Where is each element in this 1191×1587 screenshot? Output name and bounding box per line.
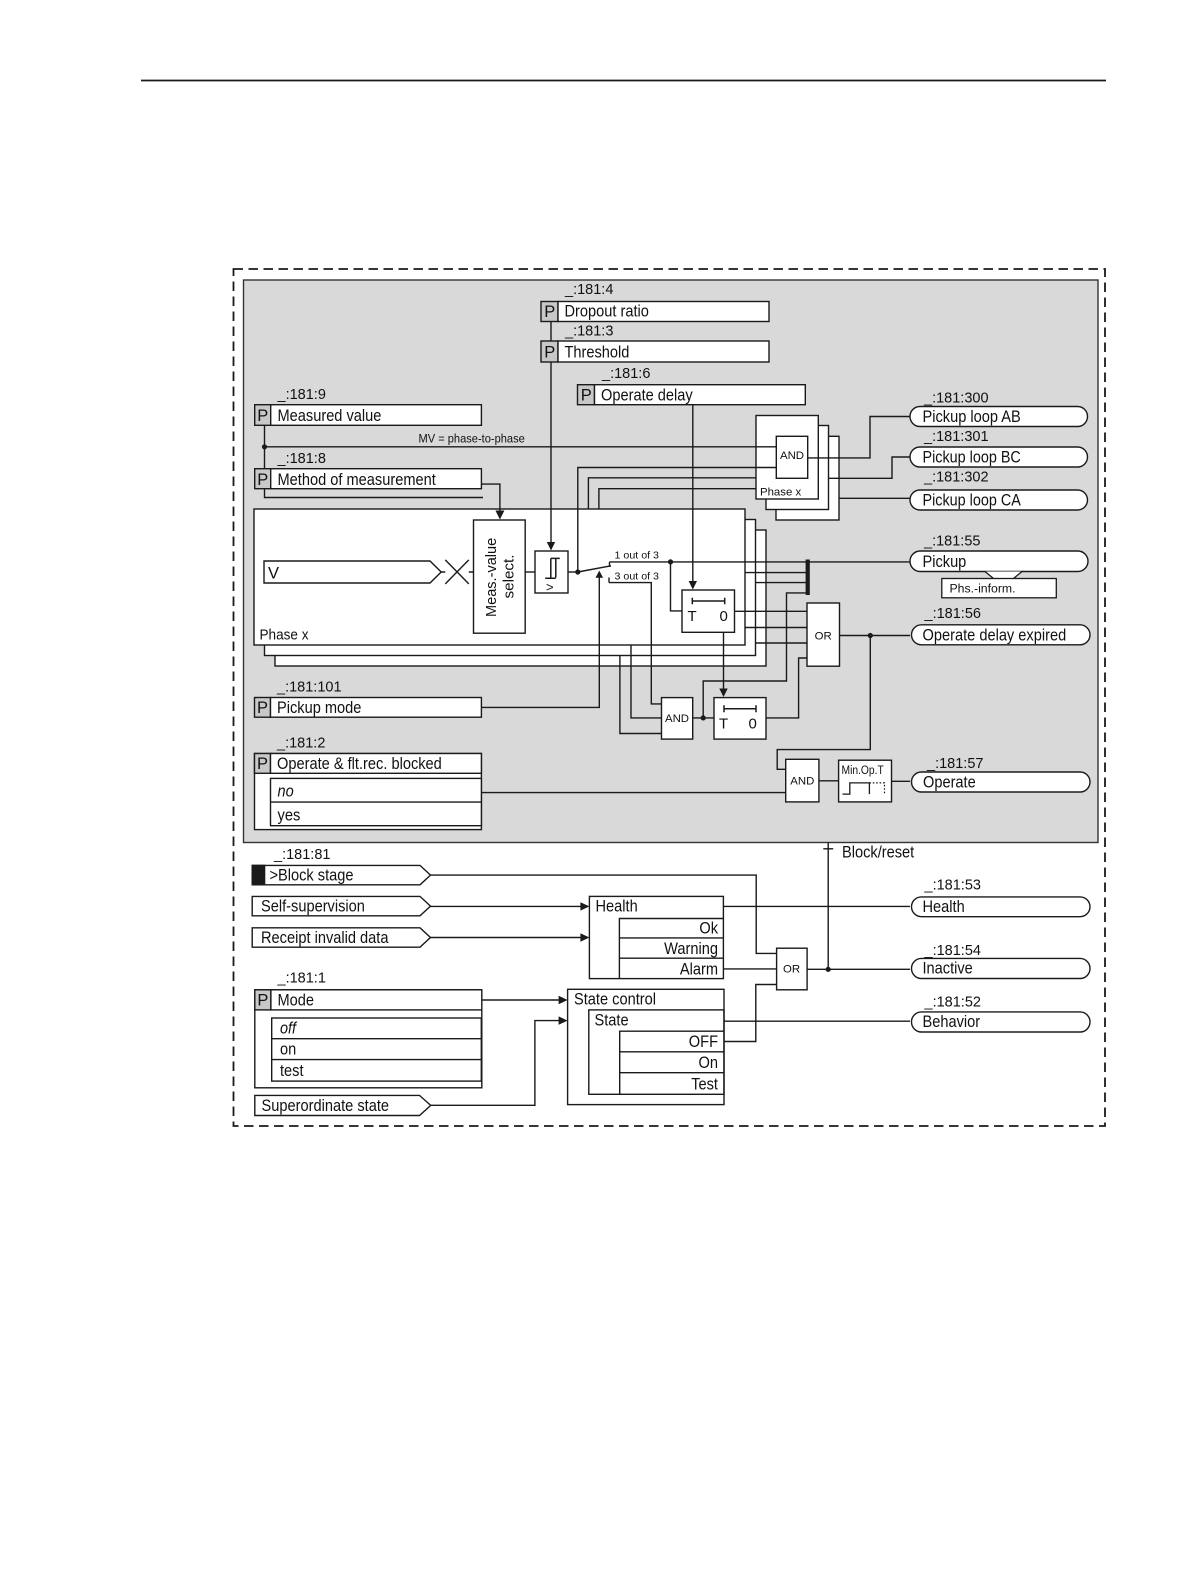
arrowhead: into meas.-value select top [495,511,504,520]
svg-text:yes: yes [278,807,301,825]
wire: AND A2 input 3 [620,656,662,734]
wire: no-option line to AND A3 [481,792,785,794]
AND gate A0 (phase AND) [776,436,807,478]
svg-text:Pickup loop CA: Pickup loop CA [923,492,1021,510]
gray function area [244,280,1099,843]
svg-text:_:181:4: _:181:4 [564,282,613,298]
wire: Block/reset tick [823,848,833,850]
svg-text:P: P [544,344,555,362]
arrowhead: into Health (self-supervision) [580,902,589,910]
svg-text:>Block stage: >Block stage [270,867,354,885]
Phs.-inform. trapezoid [985,572,1022,579]
wire: comparator to switch dot [568,571,578,573]
node: measured value junction dot [262,444,267,449]
svg-text:Superordinate state: Superordinate state [262,1097,390,1115]
wire: OR O1 output to Operate delay expired [840,635,911,637]
no/yes options box [271,778,482,825]
input V symbol [264,561,441,583]
wire: meas.-value select to comparator [525,571,535,573]
wire: Self-supervision to Health block [431,905,582,907]
AND container sheet 1 (front) [756,416,818,500]
output pill: Pickup loop AB [910,407,1088,427]
wire: Alarm output to OR gate O2 [723,968,776,970]
parameter P box: Operate delay [578,385,595,405]
comparator hysteresis symbol [545,558,560,578]
wire: OR O2 output to Inactive pill [807,968,910,970]
input banner: >Block stage [252,865,430,884]
node: O1 output junction dot [868,633,873,638]
output pill: Health [912,897,1091,917]
output pill: Pickup loop CA [910,490,1088,510]
svg-text:_:181:2: _:181:2 [276,736,325,752]
svg-text:Phase x: Phase x [260,627,309,644]
svg-text:Inactive: Inactive [923,960,973,978]
AND gate A3 [786,759,819,802]
svg-text:_:181:55: _:181:55 [923,534,980,550]
svg-text:0: 0 [749,715,757,732]
svg-text:Pickup loop BC: Pickup loop BC [923,449,1021,467]
svg-text:Alarm: Alarm [680,961,718,979]
svg-text:P: P [257,407,268,425]
wire: State row output to Behavior pill [724,1020,910,1022]
wire: 3 out of 3 line down to AND gate A2 [609,583,662,704]
wire: Min.Op.T output to Operate [892,780,911,782]
wire: AND A2 input 2 [631,645,662,718]
svg-text:_:181:8: _:181:8 [277,451,326,467]
svg-text:Receipt invalid data: Receipt invalid data [261,929,389,947]
Health Ok row [619,919,723,979]
svg-text:AND: AND [780,450,804,462]
input banner: Superordinate state [255,1095,431,1115]
svg-text:select.: select. [501,555,518,599]
arrowhead: into timer T2 top [719,689,727,698]
svg-text:State: State [595,1012,629,1030]
wire: Superordinate state to State control [431,1021,560,1106]
wire: 1 out of 3 contact tick [609,562,611,567]
svg-text:Phs.-inform.: Phs.-inform. [950,582,1016,596]
svg-text:Threshold: Threshold [565,344,630,362]
output pill: Pickup [910,551,1088,572]
svg-text:P: P [257,471,268,489]
svg-text:OR: OR [815,631,832,643]
svg-text:_:181:56: _:181:56 [924,606,981,622]
svg-text:Test: Test [691,1076,718,1094]
svg-text:_:181:81: _:181:81 [273,847,330,863]
svg-text:Pickup mode: Pickup mode [277,699,361,717]
wire: 1oo3 branch down into timer T1 [671,562,683,611]
arrowhead: into comparator top [547,542,555,551]
svg-text:AND: AND [790,776,814,788]
svg-text:Pickup loop AB: Pickup loop AB [923,408,1021,426]
svg-text:no: no [278,783,294,801]
svg-text:AND: AND [665,713,689,725]
svg-text:_:181:3: _:181:3 [564,324,613,340]
svg-text:_:181:9: _:181:9 [277,387,326,403]
wire: OFF row output up to OR gate O2 [723,985,776,1042]
svg-text:OFF: OFF [689,1033,718,1051]
arrowhead: into State control (mode) [559,996,568,1004]
Min.Op.T box [839,760,892,802]
wire: riser sheet2 signal to AND stack [588,478,756,510]
svg-text:OR: OR [783,964,800,976]
svg-text:Mode: Mode [278,992,315,1010]
svg-text:>: > [546,580,554,595]
svg-text:_:181:302: _:181:302 [923,470,989,486]
svg-text:T: T [719,715,728,732]
svg-text:Operate delay: Operate delay [601,387,693,405]
OR gate O1 [807,603,840,666]
Phs.-inform. box [942,579,1057,598]
wire: switch arm [578,566,611,572]
wire: A2 junction riser to bus bottom [703,593,805,718]
wire: riser sheet1 signal to AND input 2 [578,468,777,573]
svg-text:P: P [257,699,268,717]
parameter P box: Threshold [541,341,558,362]
svg-text:Phase x: Phase x [760,487,801,499]
timer T2 pulse symbol [724,705,756,712]
svg-text:off: off [280,1020,298,1038]
output pill: Pickup loop BC [910,447,1088,467]
svg-text:On: On [699,1054,719,1072]
OR gate O2 [777,948,808,990]
wire: MV = phase-to-phase line to AND input 1 [265,446,777,448]
svg-text:Health: Health [596,898,638,916]
phase sheet 3 (back) [275,530,766,666]
svg-text:Measured value: Measured value [278,407,382,425]
wire: pickup mode control line to switch [481,576,599,708]
phase sheet 2 (middle) [265,520,756,656]
wire: Receipt invalid data to Health block [431,937,582,939]
wire: operate delay vertical to timer T1 [692,405,694,585]
svg-text:Self-supervision: Self-supervision [261,898,365,916]
input banner: Receipt invalid data [252,928,430,947]
svg-text:on: on [280,1041,296,1059]
svg-text:Min.Op.T: Min.Op.T [842,763,885,777]
svg-text:_:181:53: _:181:53 [924,878,981,894]
wire: method of measurement elbow to meas.-value select [481,484,500,514]
svg-text:T: T [688,608,697,625]
svg-text:_:181:52: _:181:52 [924,995,981,1011]
parameter box: Mode container [255,990,482,1088]
wire: AND stack output 3 to Pickup loop CA [839,497,910,499]
parameter box: Operate & flt.rec. blocked container [255,754,482,830]
svg-text:State control: State control [574,991,656,1009]
wire: AND stack output front to Pickup loop AB [808,417,910,458]
svg-text:_:181:1: _:181:1 [277,971,326,987]
wire: sheet3 delay line to OR gate O1 [756,642,808,644]
arrowhead: into timer T1 top [689,581,697,590]
svg-text:Health: Health [923,898,965,916]
svg-text:_:181:57: _:181:57 [926,756,983,772]
node: comparator output dot [575,569,580,574]
svg-text:_:181:301: _:181:301 [923,429,989,445]
svg-text:P: P [544,303,555,321]
svg-text:0: 0 [720,608,728,625]
bus bar junction [806,560,810,596]
wire: 3 out of 3 contact tick [608,578,610,583]
wire: measured value drop + MV line + shadow under method box [265,425,484,497]
svg-text:Warning: Warning [664,940,718,958]
State inner block [589,1010,724,1094]
svg-text:Operate: Operate [923,774,976,792]
svg-text:Meas.-value: Meas.-value [483,538,500,617]
svg-text:Behavior: Behavior [923,1013,981,1031]
parameter P box: Method of measurement [255,469,271,489]
Min.Op.T dotted pulse [869,783,884,794]
svg-text:_:181:6: _:181:6 [601,366,650,382]
svg-text:Operate & flt.rec. blocked: Operate & flt.rec. blocked [277,755,442,773]
off/on/test options box [272,1018,482,1081]
wire: O1 junction down to AND A3 [777,636,870,770]
arrowhead: into Health (receipt invalid data) [580,933,589,941]
svg-text:1 out of 3: 1 out of 3 [615,551,660,562]
node: O2 output junction with Block/reset [826,967,831,972]
timer T2 box [714,698,766,740]
wire: riser sheet3 signal to AND stack [599,489,756,510]
wire: timer T1 bottom output down to timer T2 [723,632,725,691]
node: 1oo3 junction dot [668,559,673,564]
svg-text:3 out of 3: 3 out of 3 [615,572,660,583]
comparator box U1 [535,551,568,593]
svg-text:Pickup: Pickup [923,553,967,571]
Health block [589,896,723,978]
output pill: Inactive [912,958,1091,978]
wire: 1 out of 3 line to bus and Pickup output [610,561,911,563]
X mixer symbol [441,560,473,584]
wire: >Block stage to OR gate O2 [431,875,777,953]
function-block dashed frame [234,269,1106,1126]
wire: Block/reset vertical [827,843,829,970]
parameter P box: Measured value [255,405,271,426]
output pill: Operate [912,772,1091,792]
svg-text:Dropout ratio: Dropout ratio [565,303,649,321]
State OFF/On/Test rows [620,1031,724,1094]
svg-text:_:181:101: _:181:101 [276,680,342,696]
svg-text:_:181:300: _:181:300 [923,391,989,407]
wire: AND A2 output to timer T2 [693,717,714,719]
wire: sheet2 pickup line to bus [745,572,806,574]
wire: timer T2 output to OR gate O1 [766,658,807,718]
State control block [568,989,724,1104]
svg-text:Block/reset: Block/reset [842,844,915,862]
AND container sheet 2 (middle) [766,426,829,510]
header rule [141,80,1106,82]
wire: timer T1 output to OR gate O1 [735,610,808,612]
svg-text:P: P [581,387,592,405]
svg-text:P: P [257,992,268,1010]
arrowhead: pickup mode control up arrow [596,571,604,578]
wire: Mode output to State control [482,999,560,1001]
svg-text:Method of measurement: Method of measurement [278,471,437,489]
wire: threshold vertical to comparator [550,322,552,546]
wire: sheet3 pickup line to bus [756,582,807,584]
arrowhead: into State control (superordinate) [559,1016,568,1024]
svg-text:V: V [268,565,279,583]
wire: AND A3 output to Min.Op.T [819,780,839,782]
wire: Health title output to Health pill [723,905,910,907]
parameter P box: Dropout ratio [541,302,558,322]
wire: sheet2 delay line to OR gate O1 [745,627,807,629]
phase sheet 1 (front) [254,509,745,645]
Min.Op.T pulse symbol [843,783,870,794]
meas.-value select box [474,520,526,633]
node: A2 output junction dot [701,715,706,720]
svg-text:Ok: Ok [699,920,718,938]
AND gate A2 [662,698,693,740]
input banner: Self-supervision [252,896,430,915]
svg-text:Operate delay expired: Operate delay expired [923,627,1067,645]
svg-text:P: P [257,755,268,773]
svg-text:_:181:54: _:181:54 [924,943,981,959]
timer T1 pulse symbol [692,598,724,605]
parameter P box: Pickup mode [255,698,271,718]
svg-text:MV = phase-to-phase: MV = phase-to-phase [419,432,525,446]
timer T1 box [682,590,735,632]
wire: AND stack output 2 to Pickup loop BC [829,457,911,478]
output pill: Operate delay expired [912,625,1091,645]
output pill: Behavior [912,1012,1091,1032]
svg-text:test: test [280,1062,304,1080]
AND container sheet 3 (back) [776,436,839,520]
